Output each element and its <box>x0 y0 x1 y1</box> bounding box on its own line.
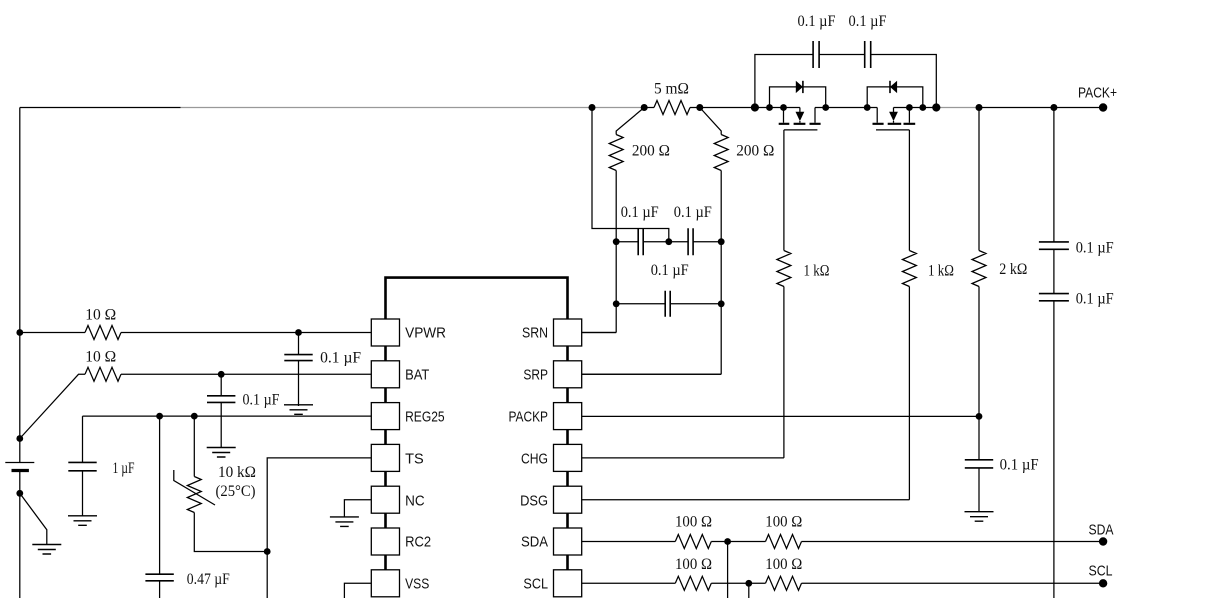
svg-text:0.1 µF: 0.1 µF <box>621 204 659 221</box>
svg-text:SCL: SCL <box>523 576 548 593</box>
svg-text:100 Ω: 100 Ω <box>765 514 802 531</box>
svg-text:0.47 µF: 0.47 µF <box>187 571 230 588</box>
svg-text:RC2: RC2 <box>405 534 431 551</box>
svg-text:0.1 µF: 0.1 µF <box>849 13 887 30</box>
svg-text:CHG: CHG <box>521 451 548 468</box>
svg-text:0.1 µF: 0.1 µF <box>1076 240 1114 257</box>
svg-text:SCL: SCL <box>1089 563 1113 580</box>
svg-text:1 kΩ: 1 kΩ <box>928 263 954 280</box>
svg-text:10 kΩ: 10 kΩ <box>218 464 256 481</box>
svg-text:0.1 µF: 0.1 µF <box>674 204 712 221</box>
svg-text:0.1 µF: 0.1 µF <box>243 392 280 409</box>
svg-text:1 µF: 1 µF <box>113 460 135 477</box>
svg-text:PACK+: PACK+ <box>1078 85 1117 102</box>
svg-text:2 kΩ: 2 kΩ <box>999 261 1027 278</box>
svg-text:PACKP: PACKP <box>509 409 549 426</box>
svg-text:0.1 µF: 0.1 µF <box>651 262 689 279</box>
svg-text:0.1 µF: 0.1 µF <box>1000 457 1039 474</box>
svg-text:SDA: SDA <box>1089 522 1114 539</box>
svg-text:100 Ω: 100 Ω <box>675 514 712 531</box>
svg-text:1 kΩ: 1 kΩ <box>804 263 830 280</box>
svg-text:100 Ω: 100 Ω <box>765 556 802 573</box>
svg-text:REG25: REG25 <box>405 409 445 426</box>
svg-text:0.1 µF: 0.1 µF <box>798 13 836 30</box>
svg-text:0.1 µF: 0.1 µF <box>1076 291 1114 308</box>
svg-text:SRP: SRP <box>523 367 548 384</box>
svg-text:100 Ω: 100 Ω <box>675 556 712 573</box>
svg-text:TS: TS <box>405 451 424 468</box>
svg-text:10 Ω: 10 Ω <box>85 349 116 366</box>
svg-text:10 Ω: 10 Ω <box>85 307 116 324</box>
svg-text:0.1 µF: 0.1 µF <box>320 350 361 367</box>
svg-text:BAT: BAT <box>405 367 429 384</box>
svg-text:DSG: DSG <box>520 493 548 510</box>
svg-text:(25°C): (25°C) <box>216 483 256 500</box>
svg-text:VPWR: VPWR <box>405 325 446 342</box>
svg-text:VSS: VSS <box>405 576 429 593</box>
svg-text:NC: NC <box>405 493 425 510</box>
svg-text:SRN: SRN <box>522 325 548 342</box>
svg-text:5 mΩ: 5 mΩ <box>654 81 689 98</box>
svg-text:SDA: SDA <box>521 534 548 551</box>
svg-text:200 Ω: 200 Ω <box>736 143 774 160</box>
svg-text:200 Ω: 200 Ω <box>632 143 670 160</box>
